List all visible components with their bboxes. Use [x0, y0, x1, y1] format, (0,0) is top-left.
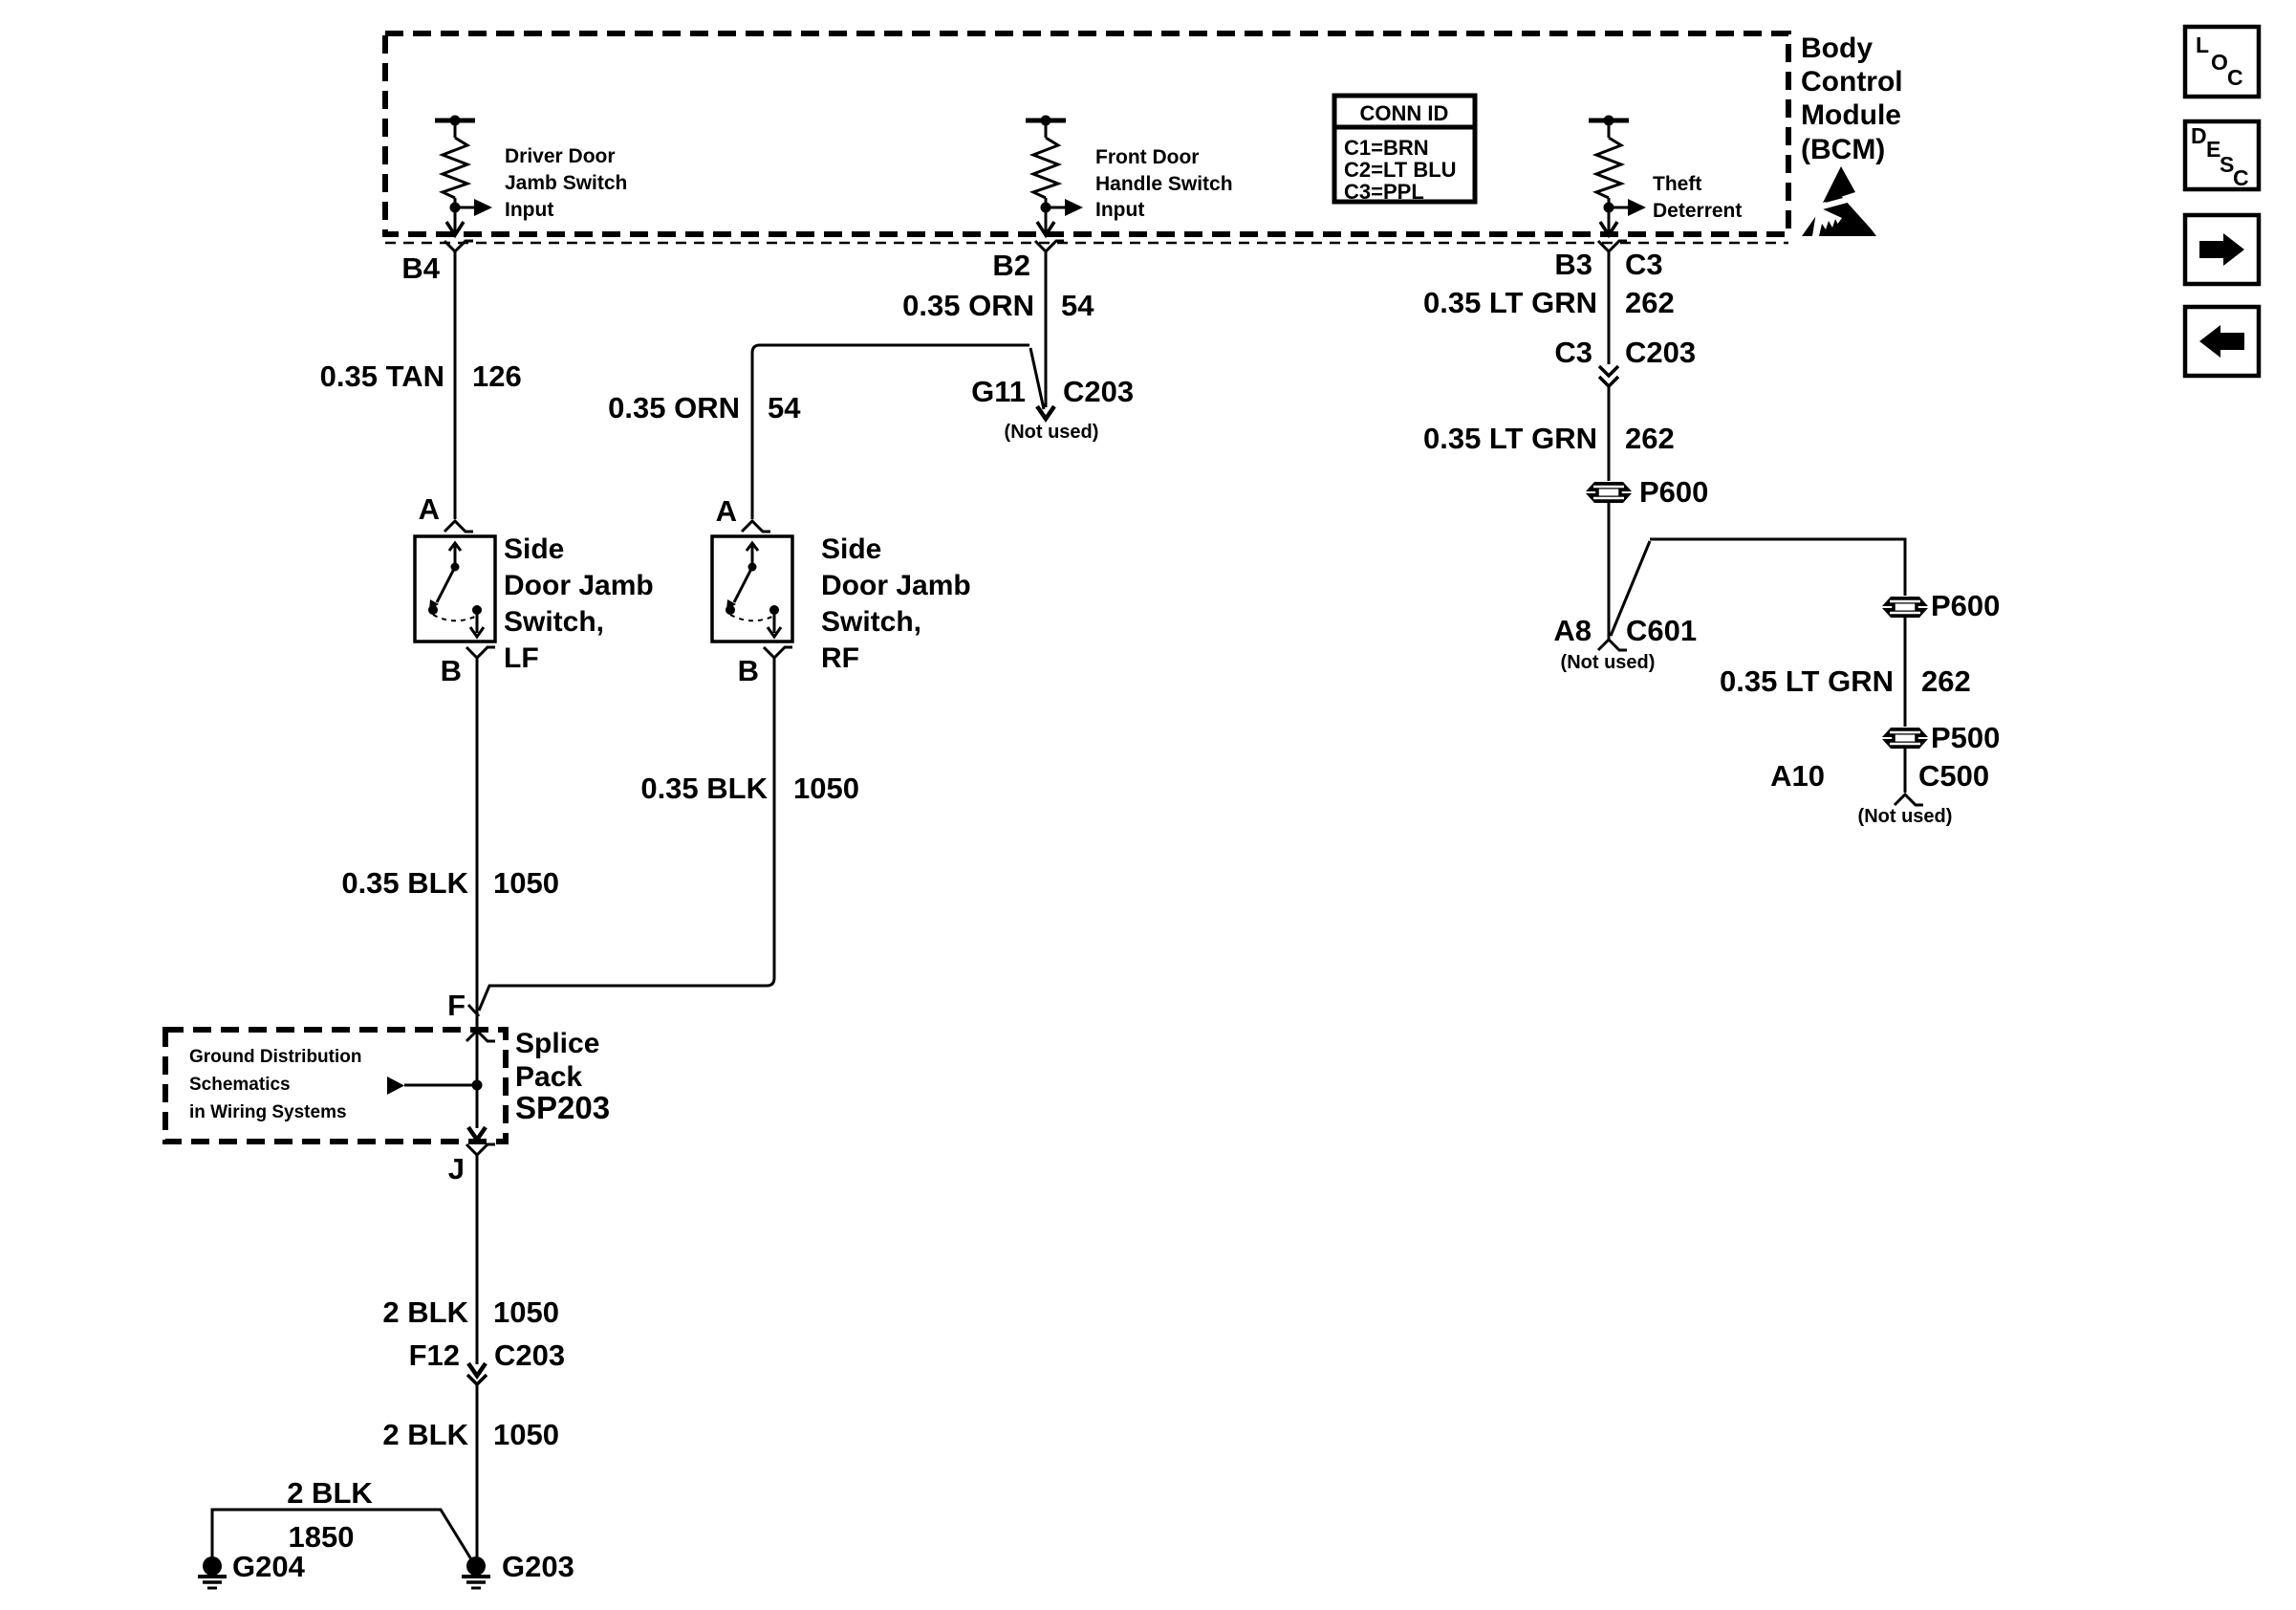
in-line connector C203 lower chevron	[467, 1375, 487, 1384]
svg-text:LF: LF	[504, 642, 539, 674]
svg-text:P600: P600	[1639, 475, 1708, 509]
svg-text:2 BLK: 2 BLK	[287, 1476, 373, 1510]
svg-text:RF: RF	[821, 642, 859, 674]
svg-text:Input: Input	[1095, 199, 1144, 221]
svg-text:B: B	[441, 654, 462, 687]
pin label B2	[992, 249, 1030, 282]
wire B2 (0.35 ORN 54)	[1045, 251, 1048, 407]
svg-text:1050: 1050	[793, 772, 859, 805]
svg-text:(Not used): (Not used)	[1858, 806, 1953, 827]
ground label G204	[232, 1550, 306, 1583]
svg-text:Control: Control	[1801, 66, 1903, 98]
wire B3 upper (0.35 LT GRN 262)	[1608, 251, 1611, 364]
svg-text:2 BLK: 2 BLK	[382, 1418, 468, 1451]
wire end arrow at G11 C203	[1037, 406, 1054, 419]
svg-text:SP203: SP203	[515, 1090, 610, 1125]
wire label 0.35 ORN 54 (B2)	[902, 289, 1094, 322]
connector fork pin B2 at BCM	[1035, 241, 1064, 251]
junction dot SP203	[472, 1080, 483, 1091]
svg-text:0.35 BLK: 0.35 BLK	[640, 772, 768, 805]
Body Control Module (BCM) dashed outline	[385, 33, 1788, 234]
wire P600 to A8 C601	[1608, 503, 1611, 639]
ground G203	[462, 1556, 490, 1588]
connector label P600 (right)	[1931, 589, 2000, 622]
wire P500 to A10 C500	[1904, 749, 1907, 793]
svg-text:0.35 TAN: 0.35 TAN	[320, 359, 444, 393]
svg-text:Handle Switch: Handle Switch	[1095, 173, 1233, 195]
wire label 1850 (G204 branch)	[289, 1520, 355, 1554]
pin label B (RF switch)	[738, 654, 759, 687]
svg-text:G204: G204	[232, 1550, 306, 1583]
svg-text:1050: 1050	[493, 1295, 559, 1329]
wire label 0.35 BLK 1050 (RF)	[640, 772, 859, 805]
svg-text:in Wiring Systems: in Wiring Systems	[189, 1102, 347, 1122]
svg-text:Input: Input	[505, 199, 553, 221]
connector label G11 C203 (Not used)	[971, 375, 1134, 443]
ground G204	[198, 1556, 227, 1588]
wire C203 to G203 (2 BLK 1050)	[476, 1384, 479, 1560]
CONN ID legend box	[1334, 96, 1475, 204]
svg-text:C: C	[2227, 65, 2243, 90]
connector fork pin F of splice pack	[466, 1031, 495, 1041]
svg-text:0.35 ORN: 0.35 ORN	[608, 391, 740, 424]
svg-text:1850: 1850	[289, 1520, 355, 1554]
svg-text:C601: C601	[1626, 614, 1697, 647]
pin label B3 C3	[1554, 248, 1662, 281]
wire label 0.35 ORN 54 (RF branch)	[608, 391, 801, 424]
wire end arrow at F12 C203	[468, 1363, 486, 1376]
connector fork pin B3 at BCM	[1598, 241, 1627, 251]
svg-text:B3: B3	[1554, 248, 1592, 281]
wire J to C203 (2 BLK 1050)	[476, 1155, 479, 1364]
svg-text:B4: B4	[401, 251, 440, 285]
in-line connector P600 (left)	[1586, 482, 1632, 503]
switch Side Door Jamb Switch RF	[712, 536, 792, 642]
wire RF switch B to node F (0.35 BLK 1050)	[479, 658, 774, 1011]
connector label C3 C203	[1554, 336, 1696, 369]
svg-text:0.35 LT GRN: 0.35 LT GRN	[1423, 422, 1597, 455]
svg-text:Side: Side	[821, 533, 881, 565]
pin label A (LF switch)	[419, 492, 440, 526]
svg-text:2 BLK: 2 BLK	[382, 1295, 468, 1329]
svg-text:C1=BRN: C1=BRN	[1344, 136, 1429, 160]
branch diagonal at A8 C601	[1611, 541, 1650, 636]
wire C203 to P600 (0.35 LT GRN 262)	[1608, 386, 1611, 481]
svg-text:Schematics: Schematics	[189, 1075, 291, 1095]
connector label A10 C500 (Not used)	[1770, 759, 1989, 827]
svg-text:A10: A10	[1770, 759, 1825, 793]
Ground Distribution dashed box	[165, 1030, 506, 1142]
connector fork pin A of LF switch	[444, 521, 473, 532]
resistor Theft Deterrent (BCM internal)	[1589, 116, 1646, 236]
button next (right arrow)	[2185, 215, 2259, 284]
svg-text:C3: C3	[1554, 336, 1592, 369]
pin label B4	[401, 251, 440, 285]
wire label 0.35 LT GRN 262 (lower)	[1423, 422, 1675, 455]
svg-text:54: 54	[1061, 289, 1094, 322]
svg-text:Theft: Theft	[1653, 173, 1701, 195]
svg-text:(Not used): (Not used)	[1005, 422, 1099, 443]
wire label 0.35 TAN 126	[320, 359, 522, 393]
wire B4 to LF switch (0.35 TAN 126)	[454, 251, 457, 519]
connector label A8 C601 (Not used)	[1553, 614, 1697, 673]
svg-text:G203: G203	[502, 1550, 574, 1583]
label Driver Door Jamb Switch Input	[505, 145, 627, 221]
svg-text:Door Jamb: Door Jamb	[504, 570, 654, 601]
svg-text:54: 54	[768, 391, 801, 424]
switch Side Door Jamb Switch LF	[415, 536, 495, 642]
BCM connector face thin dashed line	[385, 242, 1788, 245]
svg-text:CONN ID: CONN ID	[1360, 101, 1449, 125]
svg-text:C203: C203	[1625, 336, 1696, 369]
wire label 2 BLK (G204 branch)	[287, 1476, 373, 1510]
svg-text:D: D	[2191, 123, 2207, 148]
svg-text:J: J	[448, 1152, 465, 1186]
splice pack reference arrow	[387, 1077, 477, 1095]
pin label J	[448, 1152, 465, 1186]
in-line connector C203 chevrons	[1599, 366, 1618, 386]
in-line connector P600 (right)	[1882, 597, 1928, 618]
button back (left arrow)	[2185, 307, 2259, 376]
svg-text:(Not used): (Not used)	[1561, 652, 1656, 673]
connector fork pin B4 at BCM	[444, 241, 473, 251]
button DESC	[2185, 121, 2259, 190]
svg-text:A8: A8	[1553, 614, 1592, 647]
wire branch to right P600	[1650, 539, 1905, 596]
connector fork pin B of RF switch	[764, 647, 792, 658]
connector fork pin B of LF switch	[466, 647, 495, 658]
svg-text:(BCM): (BCM)	[1801, 134, 1885, 165]
label Side Door Jamb Switch LF	[504, 533, 654, 674]
svg-text:C: C	[2233, 165, 2249, 190]
svg-text:C203: C203	[1063, 375, 1134, 408]
svg-text:L: L	[2196, 33, 2209, 57]
ground label G203	[502, 1550, 574, 1583]
wire label 0.35 BLK 1050 (LF)	[341, 866, 559, 900]
wire label 2 BLK 1050 (upper)	[382, 1295, 559, 1329]
svg-text:B: B	[738, 654, 759, 687]
svg-text:B2: B2	[992, 249, 1030, 282]
svg-text:Side: Side	[504, 533, 564, 565]
junction X at node F	[468, 1005, 479, 1016]
svg-text:0.35 ORN: 0.35 ORN	[902, 289, 1034, 322]
label Splice Pack SP203	[515, 1028, 610, 1125]
wire branch B2 to RF switch (0.35 ORN 54)	[752, 345, 1029, 519]
in-line connector P500	[1882, 728, 1928, 749]
svg-text:Pack: Pack	[515, 1061, 582, 1093]
svg-text:262: 262	[1921, 664, 1971, 698]
wire label 0.35 LT GRN 262 (upper)	[1423, 286, 1675, 319]
svg-text:P500: P500	[1931, 721, 2000, 754]
label Ground Distribution Schematics in Wiring Systems	[189, 1047, 361, 1122]
label Body Control Module (BCM)	[1801, 33, 1903, 165]
connector fork dead end at A8 C601	[1598, 640, 1627, 650]
svg-text:Deterrent: Deterrent	[1653, 200, 1742, 222]
button LOC	[2185, 27, 2259, 97]
wire LF switch B to splice pack (0.35 BLK 1050)	[476, 658, 479, 1128]
connector label P600 (left)	[1639, 475, 1708, 509]
resistor Driver Door Jamb Switch Input (BCM internal)	[435, 116, 492, 236]
svg-text:F: F	[447, 989, 466, 1022]
svg-text:1050: 1050	[493, 866, 559, 900]
svg-text:126: 126	[472, 359, 522, 393]
label Theft Deterrent	[1653, 173, 1742, 222]
svg-text:Splice: Splice	[515, 1028, 599, 1059]
wire end arrow at splice pack bottom	[468, 1127, 486, 1140]
label Front Door Handle Switch Input	[1095, 146, 1233, 221]
svg-text:1050: 1050	[493, 1418, 559, 1451]
pin label A (RF switch)	[716, 494, 737, 528]
branch diagonal at G11	[1030, 348, 1044, 409]
svg-text:0.35 LT GRN: 0.35 LT GRN	[1423, 286, 1597, 319]
connector fork pin J of splice pack	[466, 1144, 495, 1155]
svg-text:262: 262	[1625, 422, 1675, 455]
svg-text:P600: P600	[1931, 589, 2000, 622]
svg-text:262: 262	[1625, 286, 1675, 319]
svg-text:F12: F12	[409, 1338, 460, 1372]
connector label P500	[1931, 721, 2000, 754]
connector label F12 C203	[409, 1338, 566, 1372]
svg-text:Driver Door: Driver Door	[505, 145, 616, 167]
connector fork pin A of RF switch	[742, 521, 770, 532]
svg-text:G11: G11	[971, 375, 1026, 408]
pin label B (LF switch)	[441, 654, 462, 687]
svg-text:C3: C3	[1625, 248, 1663, 281]
resistor Front Door Handle Switch Input (BCM internal)	[1026, 116, 1083, 236]
ESD sensitive device symbol	[1802, 166, 1887, 241]
svg-text:Switch,: Switch,	[821, 606, 921, 638]
svg-text:C500: C500	[1918, 759, 1989, 793]
node label F	[447, 989, 466, 1022]
wire label 2 BLK 1050 (lower)	[382, 1418, 559, 1451]
svg-text:C3=PPL: C3=PPL	[1344, 180, 1424, 204]
svg-text:Switch,: Switch,	[504, 606, 604, 638]
svg-text:C2=LT BLU: C2=LT BLU	[1344, 158, 1457, 182]
svg-text:A: A	[716, 494, 737, 528]
wire label 0.35 LT GRN 262 (right)	[1720, 664, 1971, 698]
svg-text:Front Door: Front Door	[1095, 146, 1199, 168]
svg-text:Module: Module	[1801, 99, 1901, 131]
svg-text:0.35 LT GRN: 0.35 LT GRN	[1720, 664, 1894, 698]
svg-text:Ground Distribution: Ground Distribution	[189, 1047, 361, 1067]
svg-text:0.35 BLK: 0.35 BLK	[341, 866, 468, 900]
svg-text:O: O	[2211, 50, 2228, 75]
svg-text:C203: C203	[494, 1338, 565, 1372]
wire P600 to P500 (0.35 LT GRN 262)	[1904, 618, 1907, 727]
wire branch to G204 (2 BLK 1850)	[212, 1510, 471, 1559]
label Side Door Jamb Switch RF	[821, 533, 971, 674]
svg-text:Body: Body	[1801, 33, 1873, 64]
svg-text:A: A	[419, 492, 440, 526]
connector fork dead end at A10 C500	[1895, 794, 1923, 805]
svg-text:Door Jamb: Door Jamb	[821, 570, 971, 601]
svg-text:Jamb Switch: Jamb Switch	[505, 172, 627, 194]
